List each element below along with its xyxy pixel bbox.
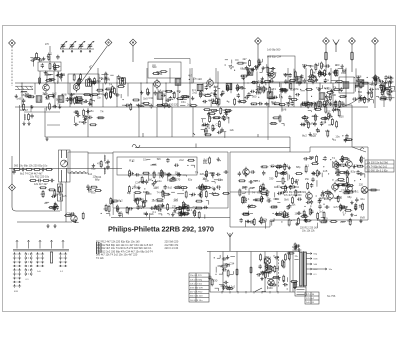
table fuse chart [305, 292, 319, 304]
wire [12, 191, 16, 211]
svg-text:8u2: 8u2 [302, 134, 307, 138]
transistor T9 [332, 182, 339, 193]
svg-text:270: 270 [242, 197, 247, 200]
tone pot parts [64, 211, 84, 223]
svg-text:82p: 82p [225, 115, 230, 119]
svg-text:4k7 47k R12: 4k7 47k R12 [190, 292, 203, 294]
demodulator lower parts [101, 197, 209, 220]
node B4 AFC terminal [255, 38, 262, 45]
wire [11, 47, 13, 87]
resistor chain tone lower [29, 176, 54, 187]
IF decoupling row [201, 107, 235, 138]
wire [278, 256, 280, 288]
transistor T5 [269, 70, 276, 81]
svg-text:560: 560 [104, 76, 109, 80]
svg-text:T4: T4 [109, 82, 113, 86]
wire [60, 48, 94, 50]
svg-text:270: 270 [284, 211, 289, 215]
output pair parts [316, 188, 367, 227]
capacitor C51 group [12, 168, 15, 174]
svg-text:10u 12k 12k: 10u 12k 12k [302, 231, 315, 233]
svg-text:270: 270 [242, 61, 247, 65]
AM detector lower parts [302, 128, 330, 138]
svg-text:12k 270 68p: 12k 270 68p [190, 279, 203, 281]
FM tuner components [39, 62, 66, 84]
transformer S8 IF can [197, 84, 203, 90]
svg-text:1k0 6V8 10u: 1k0 6V8 10u [190, 300, 203, 302]
pickup network [44, 202, 59, 211]
svg-text:220: 220 [340, 220, 345, 224]
lamp La1 dial [264, 258, 270, 264]
svg-text:2n2: 2n2 [210, 91, 215, 95]
shield box ratio detector [339, 77, 354, 93]
svg-text:T4: T4 [333, 86, 337, 90]
svg-text:5k6: 5k6 [284, 198, 289, 202]
switch S1c pushbutton [36, 240, 44, 273]
PSU middle parts [260, 253, 288, 290]
svg-text:82p: 82p [136, 199, 141, 202]
svg-text:12k 2n2 1k0: 12k 2n2 1k0 [190, 283, 203, 285]
transistor T8b [346, 159, 353, 170]
capacitor C3 trimmer [78, 41, 85, 52]
loudness tap parts [39, 186, 67, 201]
wire [351, 45, 353, 73]
wire [276, 252, 278, 293]
wire [132, 46, 134, 62]
phase splitter parts [239, 195, 301, 228]
wire [15, 106, 368, 108]
transformer S12 IF can [296, 77, 302, 83]
potentiometer R20 volume [59, 150, 71, 182]
svg-text:2n2: 2n2 [249, 187, 254, 190]
svg-text:47k: 47k [172, 212, 177, 215]
svg-text:2n2: 2n2 [179, 158, 184, 162]
svg-text:5k6: 5k6 [284, 163, 289, 167]
IF transformer S01 [122, 96, 148, 111]
svg-text:R12: R12 [129, 159, 135, 163]
svg-text:12k 4k7: 12k 4k7 [20, 110, 29, 112]
wire [15, 82, 392, 84]
svg-text:68p: 68p [296, 165, 301, 169]
svg-text:47k T4 82p 8u2 2n2: 47k T4 82p 8u2 2n2 [367, 166, 388, 168]
svg-text:270 8u2: 270 8u2 [306, 298, 315, 300]
svg-text:T4: T4 [100, 110, 104, 114]
inductor L15 [104, 155, 110, 164]
svg-text:C34: C34 [149, 96, 154, 100]
svg-text:270: 270 [172, 205, 177, 208]
svg-text:82p: 82p [91, 167, 96, 170]
resistor chain tone upper [13, 165, 53, 176]
svg-text:6V8: 6V8 [281, 107, 286, 111]
svg-text:15n: 15n [224, 262, 229, 266]
svg-text:0.1: 0.1 [316, 129, 320, 133]
transistor T2 [73, 82, 80, 93]
svg-text:10u: 10u [359, 206, 364, 209]
oscillator inner parts [73, 73, 101, 86]
smoothing caps [256, 263, 275, 279]
svg-text:330: 330 [213, 279, 218, 283]
svg-text:68p: 68p [347, 196, 352, 199]
svg-text:15n: 15n [143, 159, 148, 162]
svg-text:2n2: 2n2 [324, 86, 329, 90]
transformer S7 IF can [175, 79, 181, 85]
T4 top parts [225, 60, 239, 71]
svg-text:2n2: 2n2 [333, 102, 338, 106]
svg-text:15n: 15n [305, 177, 310, 181]
svg-text:C34: C34 [343, 156, 348, 160]
wire up stubs [97, 68, 356, 84]
svg-text:330: 330 [268, 286, 273, 290]
transformer secondary taps [307, 253, 328, 276]
wire [132, 133, 364, 150]
svg-text:15n: 15n [181, 100, 186, 104]
svg-text:5k6 C34 220: 5k6 C34 220 [190, 296, 203, 298]
svg-text:Philips-Philetta 22RB 292, 197: Philips-Philetta 22RB 292, 1970 [108, 224, 214, 233]
tone feedback parts [86, 173, 102, 194]
svg-text:1n5: 1n5 [71, 93, 76, 96]
svg-text:1n5: 1n5 [333, 205, 338, 209]
svg-text:1n5: 1n5 [173, 199, 178, 203]
svg-text:10u: 10u [335, 135, 340, 139]
svg-text:6V8: 6V8 [253, 198, 258, 202]
svg-text:10u: 10u [325, 129, 330, 133]
wire [88, 152, 113, 154]
text parts list left [96, 241, 154, 261]
svg-text:330: 330 [291, 88, 296, 92]
node B5 supply terminal [323, 38, 330, 45]
feedback parts [300, 196, 313, 222]
svg-text:C34: C34 [309, 64, 314, 68]
svg-text:4k7: 4k7 [270, 89, 275, 92]
AF preamp parts [238, 163, 303, 198]
svg-text:12k: 12k [318, 101, 323, 105]
svg-text:5k6: 5k6 [309, 155, 314, 159]
wire [61, 182, 66, 222]
note bias text [284, 192, 307, 197]
wire [264, 252, 266, 293]
potentiometer wiper arrow [61, 160, 68, 167]
T6 limiter parts [300, 62, 347, 109]
FM aerial matching parts [30, 52, 59, 67]
transistor T7 [243, 167, 250, 178]
svg-text:47k: 47k [97, 161, 102, 165]
wire [210, 291, 295, 293]
svg-text:2n2: 2n2 [192, 205, 197, 209]
neutralizing group [188, 75, 202, 83]
svg-text:12k: 12k [375, 87, 380, 91]
wire arrowhead [90, 66, 92, 69]
svg-text:10u: 10u [43, 92, 48, 95]
svg-text:220 R12 220 1k0: 220 R12 220 1k0 [300, 228, 318, 230]
shield box IF strip [113, 152, 228, 208]
node LS arrows [179, 206, 185, 216]
svg-text:82p: 82p [351, 169, 356, 173]
loudspeaker LS1 [361, 187, 368, 194]
wire [135, 147, 290, 149]
wire [44, 108, 46, 137]
svg-text:C34: C34 [135, 180, 141, 184]
svg-text:12k: 12k [229, 128, 234, 132]
svg-text:1k0: 1k0 [88, 189, 93, 193]
wire [11, 156, 13, 184]
svg-text:270: 270 [176, 177, 181, 181]
svg-text:82p: 82p [143, 211, 148, 215]
text parts list right [165, 241, 180, 251]
transformer S14 IF can [343, 82, 349, 88]
voltage adapter block [295, 287, 306, 296]
shield box oscillator [68, 74, 99, 94]
svg-text:220: 220 [326, 111, 331, 114]
scale tick marks [222, 291, 278, 293]
svg-text:68p: 68p [127, 192, 132, 195]
note measured voltages [300, 228, 318, 233]
ground [53, 224, 56, 228]
svg-text:C34: C34 [158, 72, 163, 76]
wire [30, 105, 32, 112]
svg-text:T4: T4 [252, 190, 256, 194]
svg-text:C34: C34 [294, 185, 299, 189]
svg-text:R12 68p 560 1n5 82p: R12 68p 560 1n5 82p [284, 192, 307, 194]
resistor R71 [236, 270, 238, 275]
svg-text:0.1: 0.1 [294, 282, 298, 286]
T5 IF amplifier parts [250, 64, 305, 111]
svg-text:330: 330 [332, 94, 337, 97]
svg-text:10u: 10u [176, 89, 181, 93]
svg-text:R12: R12 [79, 121, 84, 124]
svg-text:5k6: 5k6 [157, 158, 162, 161]
switch S2 mains [255, 288, 266, 292]
oscillator network [40, 92, 102, 111]
svg-text:C34: C34 [229, 261, 234, 265]
wire [47, 124, 60, 126]
node A1 aerial terminal [9, 40, 16, 47]
input tuned circuit [15, 92, 36, 111]
shield box IF1 [148, 62, 181, 78]
ratio detector parts [352, 74, 396, 104]
capacitor C1 trimmer [60, 41, 67, 52]
shield box AGC amp [268, 56, 295, 82]
svg-text:1n5: 1n5 [16, 96, 21, 100]
wire [325, 45, 327, 73]
svg-text:330: 330 [45, 98, 50, 101]
svg-text:C34: C34 [96, 175, 101, 179]
capacitor C4 trimmer [87, 41, 94, 52]
resistor R62 [351, 53, 353, 60]
svg-text:0.1: 0.1 [343, 211, 347, 214]
diode D4 pair [294, 245, 302, 251]
capacitor C2 trimmer [69, 41, 76, 52]
node A2 gram terminal [9, 184, 16, 191]
svg-text:15n: 15n [267, 197, 272, 200]
switch bar [13, 249, 69, 251]
svg-text:220: 220 [304, 100, 309, 104]
svg-text:12k 330 15n 8u2 5k6: 12k 330 15n 8u2 5k6 [367, 162, 389, 164]
antenna mains aerial symbol [227, 233, 233, 252]
svg-text:4k7: 4k7 [313, 72, 318, 75]
svg-text:T4: T4 [361, 157, 365, 161]
svg-text:T4: T4 [57, 103, 61, 107]
demodulator parts [127, 169, 230, 200]
svg-text:4k7: 4k7 [203, 178, 208, 181]
svg-text:6V8: 6V8 [347, 220, 352, 223]
transistor T1 [43, 82, 50, 93]
T3 bias network [140, 88, 198, 109]
wire [250, 252, 252, 293]
wire [24, 111, 60, 113]
svg-text:47k C34: 47k C34 [306, 294, 315, 296]
svg-text:47k: 47k [263, 217, 268, 221]
svg-text:8u2: 8u2 [204, 158, 209, 161]
driver coupling parts [178, 203, 198, 217]
ripple filter parts [91, 160, 108, 170]
inductor L16 [104, 165, 110, 174]
label box transistor types [365, 160, 394, 172]
detector output parts [300, 100, 345, 129]
shield box AF section [117, 157, 197, 175]
rectifier diodes [287, 242, 301, 260]
inductor L4 AM osc [22, 113, 33, 125]
svg-text:8u2: 8u2 [272, 102, 277, 106]
wire [236, 252, 238, 293]
svg-text:220 0.1 C34: 220 0.1 C34 [165, 247, 179, 250]
svg-text:1n5 220: 1n5 220 [306, 302, 315, 304]
transistor T8 [333, 160, 340, 171]
switch S1b pushbutton [24, 240, 32, 281]
wire [16, 210, 60, 212]
svg-text:220: 220 [200, 172, 205, 176]
resistor R58 external [368, 189, 377, 191]
svg-text:68p: 68p [240, 67, 245, 71]
node B3 terminal [130, 39, 137, 46]
AFC feed parts [269, 107, 286, 126]
svg-text:2n2: 2n2 [192, 91, 197, 95]
wire [368, 189, 380, 191]
ground [46, 224, 49, 228]
limiter row parts [129, 156, 220, 167]
wire [9, 168, 122, 170]
table voltage chart [189, 273, 209, 302]
svg-text:220: 220 [339, 101, 344, 104]
svg-text:330: 330 [269, 177, 274, 181]
svg-text:10u R12 220 10u: 10u R12 220 10u [30, 176, 50, 179]
svg-text:10u: 10u [157, 179, 162, 183]
svg-text:6V8 82p C34: 6V8 82p C34 [267, 56, 282, 59]
node B7 earth terminal [372, 38, 379, 45]
AGC network [236, 57, 262, 80]
svg-text:15n: 15n [99, 92, 104, 96]
resistor R72 [250, 268, 252, 273]
choke box L20 [68, 152, 88, 174]
svg-text:6V8: 6V8 [336, 195, 341, 199]
wire [45, 137, 290, 152]
svg-text:T4: T4 [316, 86, 320, 90]
transformer S3 IF can [76, 97, 82, 103]
wire [77, 46, 108, 89]
resistor R61 [325, 53, 327, 60]
transistor T6 [310, 74, 317, 85]
text tap labels [314, 254, 333, 277]
svg-text:8u2: 8u2 [168, 186, 173, 190]
node B6 terminal [349, 38, 356, 45]
wire [139, 107, 193, 137]
svg-text:4k7: 4k7 [208, 98, 213, 102]
svg-text:T4: T4 [332, 156, 336, 160]
svg-text:8u2: 8u2 [258, 87, 263, 90]
svg-text:220: 220 [242, 186, 247, 190]
svg-text:10u: 10u [360, 197, 365, 201]
svg-text:0.1: 0.1 [305, 163, 309, 167]
wire [257, 45, 259, 69]
svg-text:220: 220 [41, 192, 46, 196]
svg-text:560: 560 [154, 185, 159, 189]
svg-text:560: 560 [134, 185, 139, 189]
right edge parts [369, 80, 395, 98]
svg-text:12k 4k7 4k7: 12k 4k7 4k7 [34, 183, 48, 186]
wire [21, 68, 384, 107]
transformer S4 IF can [86, 80, 92, 86]
wire [40, 71, 58, 83]
node B2 dial pointer terminal [105, 39, 112, 46]
wire [267, 105, 269, 140]
svg-text:47k 4k7 C34 330: 47k 4k7 C34 330 [284, 195, 302, 197]
IF1 filter parts [152, 65, 167, 76]
text switch legend [96, 242, 102, 254]
resistor divider under pot [58, 184, 63, 201]
transformer S10 IF can [247, 69, 253, 75]
svg-text:T4: T4 [195, 171, 199, 175]
switch S1a pushbutton [13, 240, 21, 293]
wire [19, 105, 21, 169]
svg-text:1n5 68p 560: 1n5 68p 560 [267, 49, 281, 52]
transformer S1 IF can [36, 96, 42, 102]
decoupling group [74, 109, 105, 126]
transformer S9 IF can [226, 83, 232, 89]
svg-text:82p: 82p [188, 178, 193, 182]
svg-text:1n5: 1n5 [273, 206, 278, 209]
wire [207, 251, 300, 253]
wire [111, 217, 230, 219]
svg-text:15n: 15n [21, 93, 26, 97]
transformer S15 IF can [358, 80, 364, 86]
svg-text:10u: 10u [267, 73, 272, 77]
svg-text:220: 220 [307, 123, 312, 126]
svg-text:No 756: No 756 [327, 294, 336, 298]
svg-text:1k0: 1k0 [197, 77, 202, 81]
svg-text:6V8 330 6V8: 6V8 330 6V8 [190, 288, 203, 290]
svg-text:6V8: 6V8 [342, 95, 347, 98]
svg-text:0.1: 0.1 [256, 179, 260, 183]
mains input filter [208, 255, 235, 291]
svg-text:560: 560 [342, 69, 347, 72]
svg-text:220: 220 [174, 102, 179, 106]
wire [289, 252, 291, 293]
svg-text:68p: 68p [317, 219, 322, 222]
transistor T4 [207, 78, 214, 89]
wire [17, 221, 72, 223]
transformer Tr1 mains [300, 251, 307, 287]
svg-text:560 10u 68p 12k 220 82p 10u: 560 10u 68p 12k 220 82p 10u [14, 165, 48, 168]
wire [338, 95, 362, 108]
wire [292, 252, 294, 293]
svg-text:560: 560 [118, 210, 123, 214]
svg-text:1k0: 1k0 [307, 196, 312, 200]
svg-text:8u2: 8u2 [119, 199, 124, 202]
ground [45, 137, 48, 141]
transformer S2 IF can [58, 96, 64, 102]
svg-text:12k: 12k [295, 211, 300, 215]
svg-text:6V8: 6V8 [360, 215, 365, 219]
wire [209, 252, 211, 293]
